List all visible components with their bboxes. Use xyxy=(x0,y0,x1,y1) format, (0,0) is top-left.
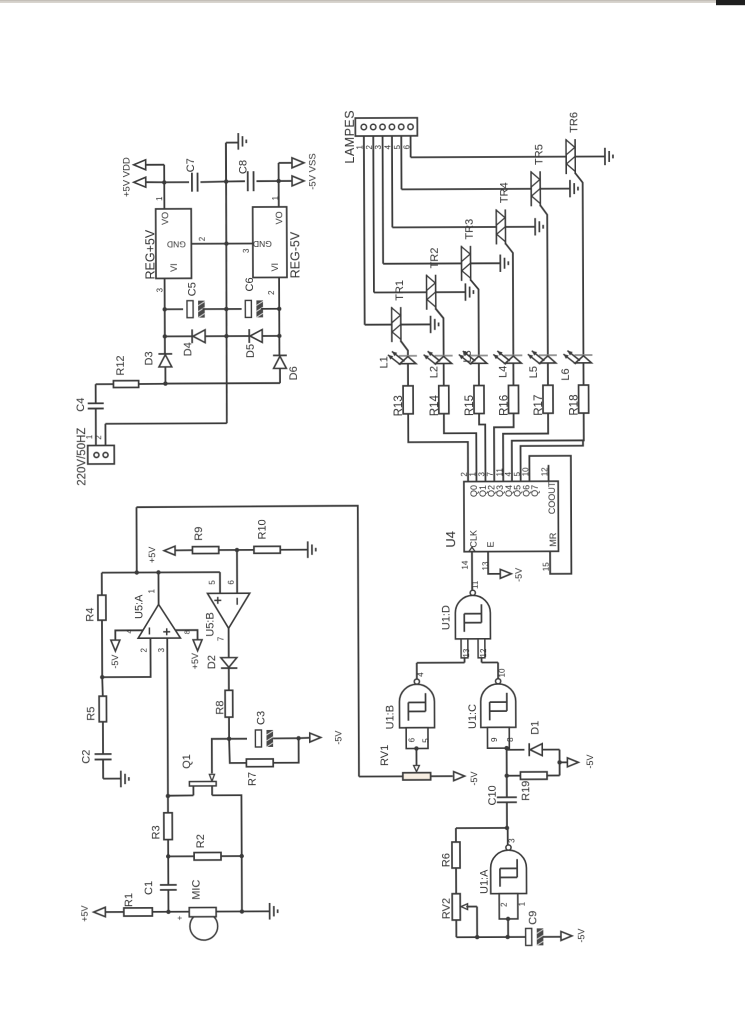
svg-text:7: 7 xyxy=(217,636,226,641)
svg-text:9: 9 xyxy=(490,737,499,742)
svg-text:MIC: MIC xyxy=(191,880,203,900)
svg-text:4: 4 xyxy=(125,629,134,633)
svg-text:D1: D1 xyxy=(529,721,541,735)
svg-text:4: 4 xyxy=(416,672,425,677)
svg-text:L3: L3 xyxy=(462,350,474,362)
svg-text:-5V: -5V xyxy=(514,568,524,582)
svg-text:2: 2 xyxy=(140,647,149,652)
svg-text:C3: C3 xyxy=(255,711,267,725)
svg-text:-5V: -5V xyxy=(333,731,343,745)
svg-text:TR2: TR2 xyxy=(429,248,441,269)
svg-text:R6: R6 xyxy=(440,853,452,867)
svg-text:D3: D3 xyxy=(143,351,155,365)
svg-text:5: 5 xyxy=(208,580,217,585)
svg-text:L4: L4 xyxy=(497,366,509,378)
svg-text:D2: D2 xyxy=(206,655,218,669)
svg-text:2: 2 xyxy=(267,290,276,295)
svg-text:C4: C4 xyxy=(75,398,87,412)
svg-text:R7: R7 xyxy=(247,772,259,786)
svg-text:COOUT: COOUT xyxy=(547,481,557,514)
svg-text:REG-5V: REG-5V xyxy=(288,231,302,278)
svg-text:3: 3 xyxy=(156,287,165,292)
svg-text:R10: R10 xyxy=(257,519,269,539)
svg-text:R5: R5 xyxy=(85,707,97,721)
svg-text:14: 14 xyxy=(461,560,470,569)
svg-text:7: 7 xyxy=(486,471,495,476)
svg-text:CLK: CLK xyxy=(469,530,479,548)
svg-text:R18: R18 xyxy=(569,394,581,415)
svg-text:C9: C9 xyxy=(527,911,539,925)
svg-text:VI: VI xyxy=(270,263,280,272)
svg-text:C7: C7 xyxy=(185,158,197,172)
svg-text:-5V: -5V xyxy=(576,929,586,943)
svg-text:2: 2 xyxy=(94,435,103,440)
svg-text:3: 3 xyxy=(507,838,516,843)
svg-text:L2: L2 xyxy=(428,366,440,378)
svg-text:R13: R13 xyxy=(393,395,405,416)
svg-text:13: 13 xyxy=(481,561,490,570)
svg-text:R9: R9 xyxy=(193,527,205,541)
svg-text:VO: VO xyxy=(160,212,170,225)
svg-text:C2: C2 xyxy=(81,750,93,764)
svg-text:R3: R3 xyxy=(150,825,162,839)
svg-text:10: 10 xyxy=(498,668,507,677)
svg-text:8: 8 xyxy=(506,737,515,742)
svg-text:8: 8 xyxy=(183,630,192,634)
svg-text:R19: R19 xyxy=(520,781,532,801)
svg-text:R14: R14 xyxy=(429,394,441,416)
svg-text:-5V: -5V xyxy=(585,755,595,769)
svg-text:-5V VSS: -5V VSS xyxy=(307,153,318,189)
svg-text:+5V VDD: +5V VDD xyxy=(121,157,132,197)
svg-text:LAMPES: LAMPES xyxy=(343,110,357,164)
svg-text:C10: C10 xyxy=(487,785,499,805)
svg-text:U1:A: U1:A xyxy=(479,869,491,894)
svg-text:3: 3 xyxy=(157,647,166,652)
svg-text:GND: GND xyxy=(167,239,186,249)
svg-text:Q1: Q1 xyxy=(181,754,193,769)
svg-text:1: 1 xyxy=(518,901,527,906)
svg-text:15: 15 xyxy=(542,562,551,571)
svg-text:13: 13 xyxy=(462,648,471,657)
svg-text:+5V: +5V xyxy=(147,547,157,563)
svg-text:R2: R2 xyxy=(195,834,207,848)
svg-text:D4: D4 xyxy=(182,342,194,356)
svg-text:R16: R16 xyxy=(498,395,510,416)
svg-text:REG+5V: REG+5V xyxy=(143,229,157,279)
svg-text:+5V: +5V xyxy=(80,905,90,921)
svg-text:2: 2 xyxy=(500,902,509,907)
svg-text:1: 1 xyxy=(147,588,156,593)
svg-text:4: 4 xyxy=(504,471,513,476)
svg-text:C8: C8 xyxy=(237,160,249,174)
svg-text:L1: L1 xyxy=(378,356,390,368)
svg-text:U1:B: U1:B xyxy=(384,705,396,730)
svg-text:12: 12 xyxy=(479,648,488,657)
svg-text:RV1: RV1 xyxy=(379,745,391,766)
svg-text:U5:B: U5:B xyxy=(204,612,216,637)
svg-text:R1: R1 xyxy=(123,893,135,907)
svg-text:12: 12 xyxy=(541,467,550,476)
svg-text:-5V: -5V xyxy=(110,655,120,669)
svg-text:220V/50HZ: 220V/50HZ xyxy=(76,428,88,486)
svg-text:1: 1 xyxy=(155,196,164,201)
svg-text:C6: C6 xyxy=(244,277,256,291)
svg-text:10: 10 xyxy=(521,467,530,476)
svg-text:L5: L5 xyxy=(528,366,540,378)
svg-text:11: 11 xyxy=(471,580,480,589)
svg-text:3: 3 xyxy=(242,248,251,253)
svg-text:MR: MR xyxy=(548,532,558,547)
svg-text:C5: C5 xyxy=(186,282,198,296)
svg-text:VO: VO xyxy=(274,211,284,224)
svg-text:5: 5 xyxy=(421,738,430,743)
svg-text:D6: D6 xyxy=(288,366,300,380)
svg-text:GND: GND xyxy=(253,239,272,249)
svg-text:L6: L6 xyxy=(560,368,572,380)
svg-text:6: 6 xyxy=(227,580,236,585)
svg-text:D5: D5 xyxy=(245,344,257,358)
svg-text:U1:C: U1:C xyxy=(467,704,479,729)
svg-text:-5V: -5V xyxy=(469,772,479,786)
svg-text:R8: R8 xyxy=(214,701,226,715)
svg-text:+5V: +5V xyxy=(190,653,200,669)
svg-text:TR5: TR5 xyxy=(533,144,545,165)
svg-text:TR6: TR6 xyxy=(568,112,580,133)
svg-text:TR4: TR4 xyxy=(499,182,511,203)
svg-text:TR3: TR3 xyxy=(464,219,476,240)
svg-text:2: 2 xyxy=(198,236,207,241)
svg-text:U4: U4 xyxy=(443,531,458,548)
svg-text:U5:A: U5:A xyxy=(133,594,145,619)
svg-text:Q7: Q7 xyxy=(530,485,540,497)
svg-text:RV2: RV2 xyxy=(441,898,453,919)
svg-text:+: + xyxy=(175,915,184,920)
svg-text:R15: R15 xyxy=(464,395,476,416)
svg-text:6: 6 xyxy=(407,737,416,742)
svg-text:R12: R12 xyxy=(115,355,127,375)
svg-text:5: 5 xyxy=(513,471,522,476)
svg-text:R17: R17 xyxy=(533,395,545,416)
svg-text:VI: VI xyxy=(169,263,179,272)
svg-text:C1: C1 xyxy=(143,881,155,895)
svg-text:TR1: TR1 xyxy=(394,280,406,301)
svg-text:R4: R4 xyxy=(84,608,96,622)
svg-text:E: E xyxy=(486,541,496,547)
svg-text:1: 1 xyxy=(468,472,477,477)
svg-text:U1:D: U1:D xyxy=(440,605,452,630)
